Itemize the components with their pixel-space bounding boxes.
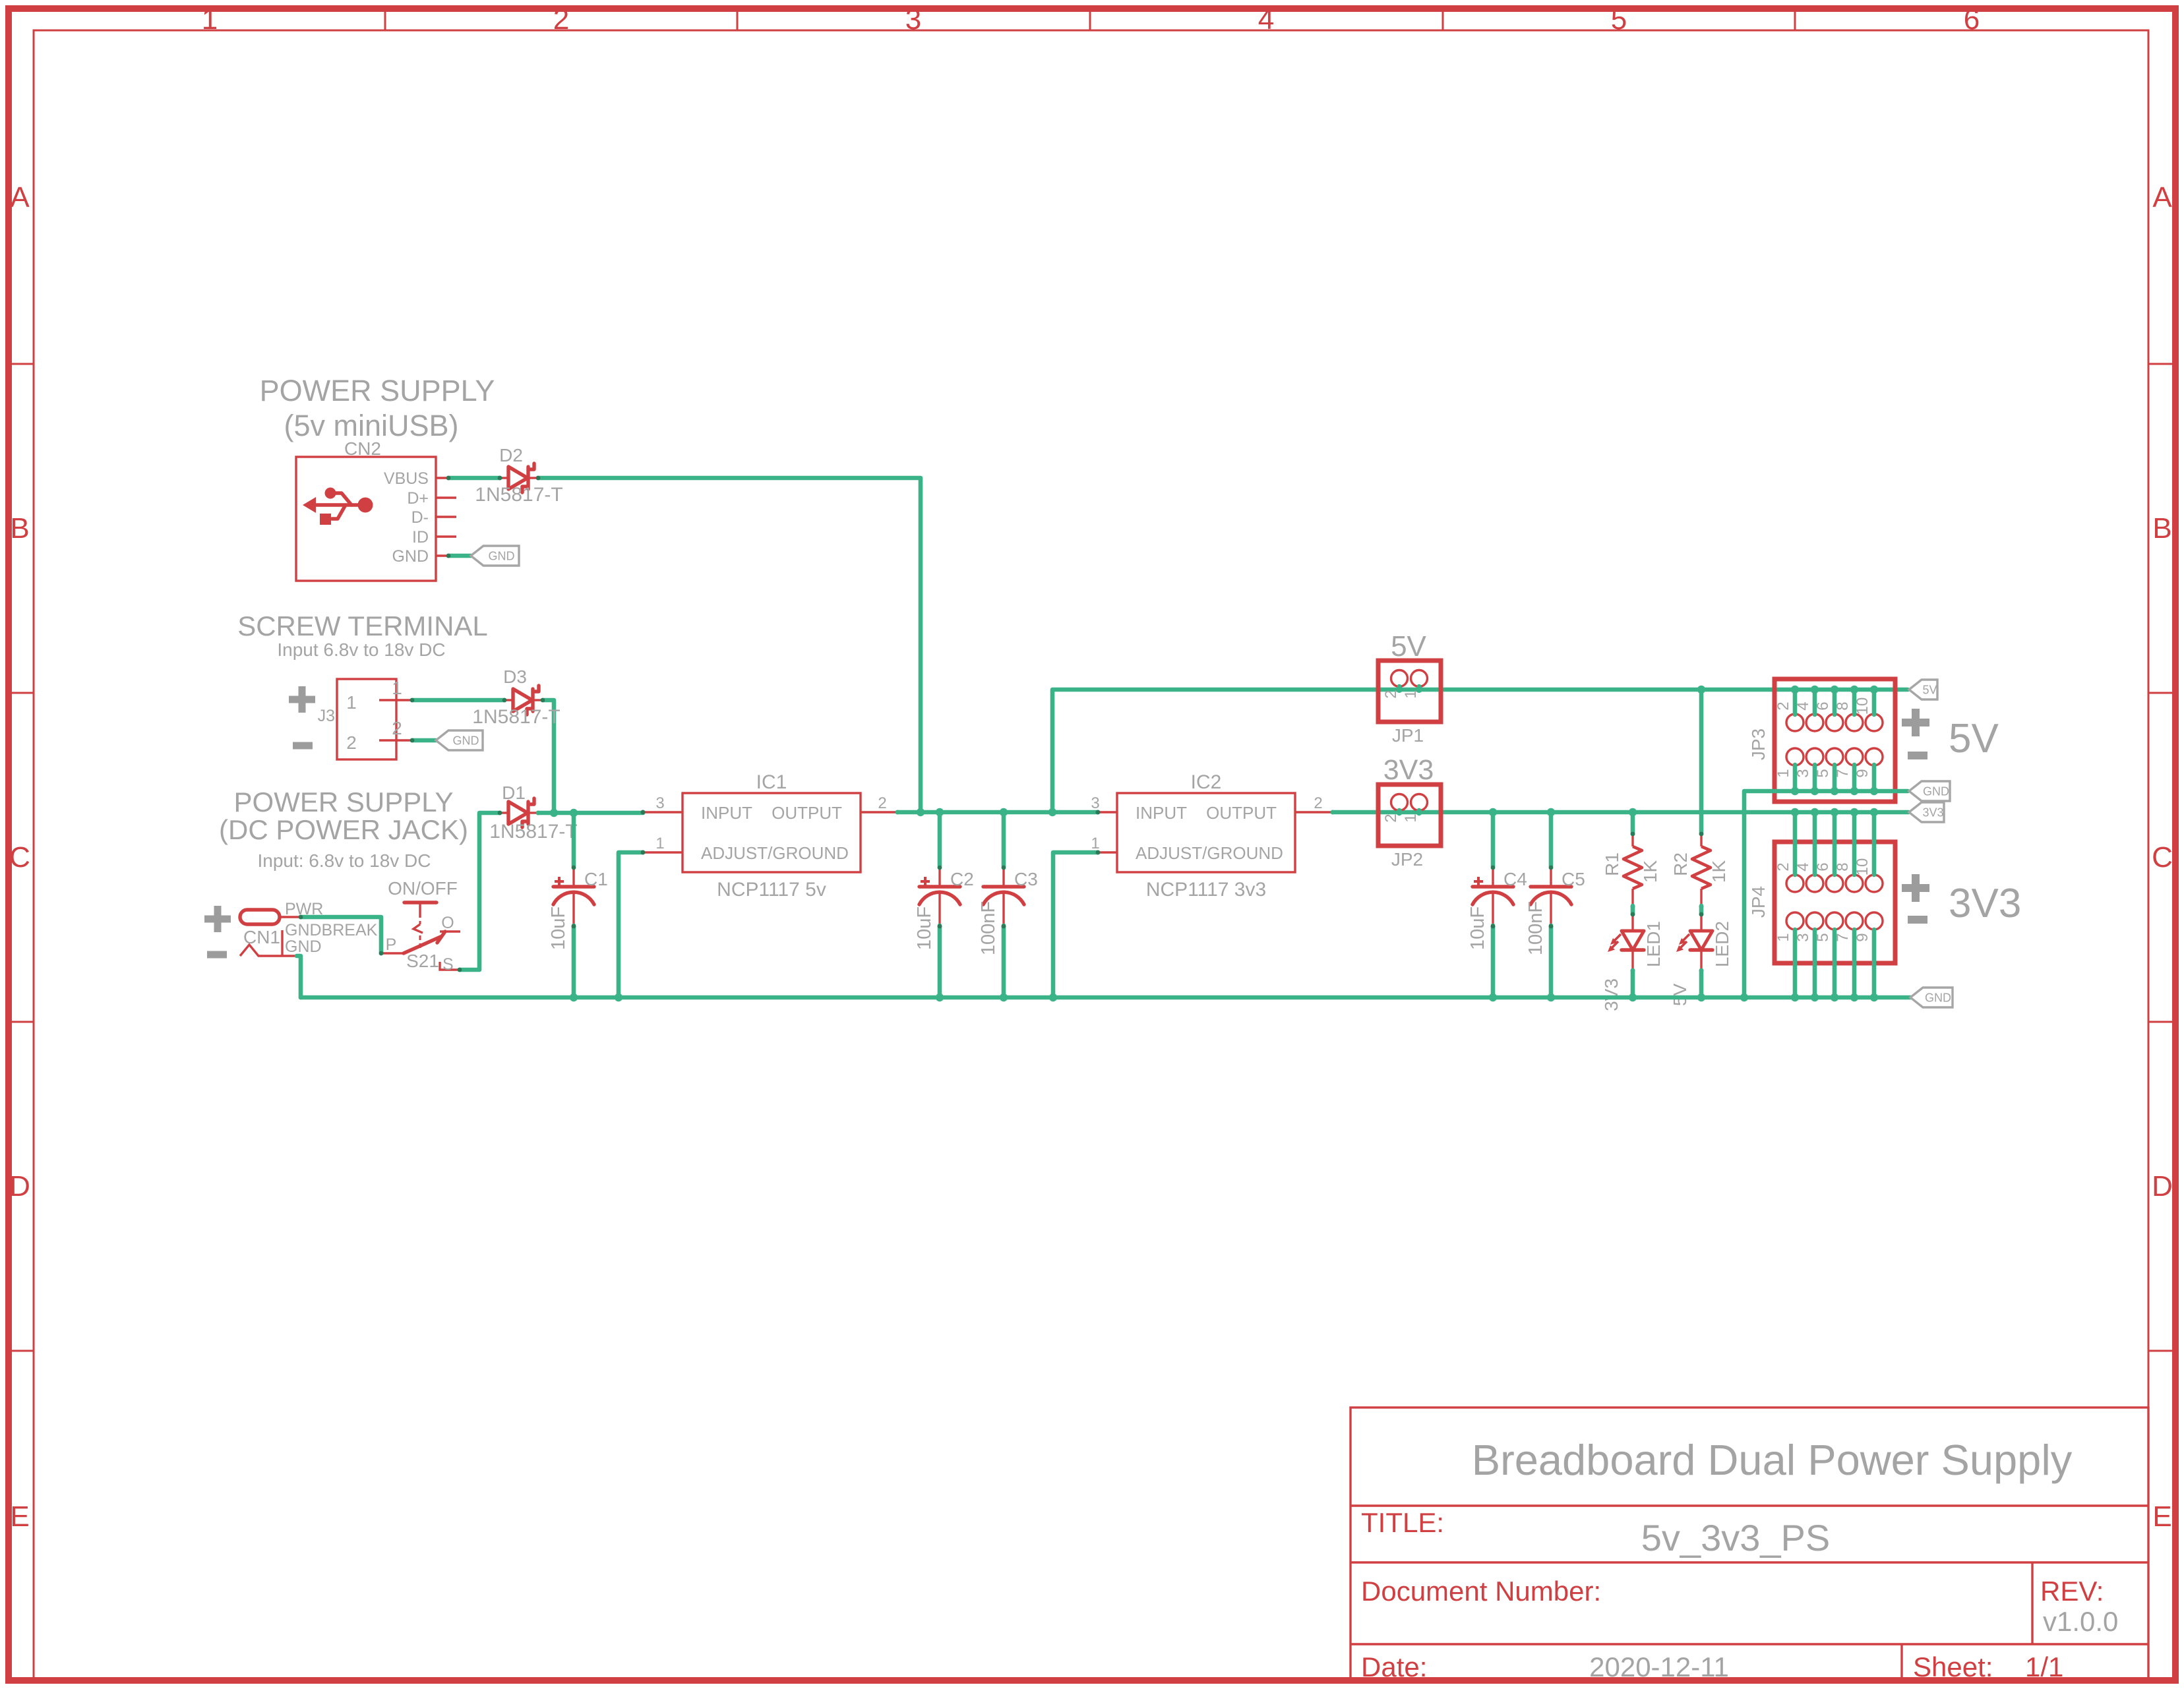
junction C1 tap (570, 809, 578, 817)
junctions JP1 pins on 5V rail (1396, 686, 1403, 693)
wire R1 riser (1631, 812, 1635, 834)
plus symbol 3V3 (1902, 874, 1929, 902)
junction IC1 adj at rail (615, 993, 622, 1001)
svg-text:NCP1117 3v3: NCP1117 3v3 (1146, 879, 1266, 901)
svg-text:POWER SUPPLY: POWER SUPPLY (234, 786, 454, 817)
TITLE row (1361, 1507, 1830, 1558)
junction C4 tap (1489, 808, 1497, 816)
svg-text:v1.0.0: v1.0.0 (2043, 1606, 2118, 1637)
svg-text:10uF: 10uF (1467, 906, 1488, 950)
wire R2 to LED2 (1699, 906, 1704, 914)
wire LED2 to ground rail (1699, 970, 1704, 997)
svg-text:1N5817-T: 1N5817-T (489, 821, 577, 843)
resistor R1 1K (1602, 832, 1660, 909)
svg-text:LED1: LED1 (1643, 921, 1664, 967)
svg-text:Date:: Date: (1361, 1651, 1427, 1682)
svg-text:IC1: IC1 (756, 771, 787, 793)
svg-text:SCREW TERMINAL: SCREW TERMINAL (237, 610, 488, 641)
svg-text:R1: R1 (1602, 852, 1622, 876)
USB icon (303, 488, 373, 525)
svg-text:NCP1117 5v: NCP1117 5v (717, 879, 826, 901)
GND flag (J3) (436, 730, 483, 750)
svg-text:LED2: LED2 (1712, 921, 1732, 967)
ground rail wire (301, 995, 1910, 1000)
svg-text:C: C (2152, 841, 2173, 874)
svg-text:1N5817-T: 1N5817-T (475, 484, 562, 506)
D1 labels (489, 783, 577, 843)
capacitor C5 (1525, 812, 1585, 997)
svg-text:P: P (386, 935, 397, 954)
svg-text:1: 1 (1774, 769, 1792, 777)
svg-text:D2: D2 (499, 445, 523, 465)
svg-text:Breadboard Dual Power Supply: Breadboard Dual Power Supply (1472, 1436, 2073, 1484)
svg-text:3V3: 3V3 (1922, 806, 1943, 819)
svg-text:O: O (441, 914, 454, 932)
svg-text:2: 2 (1382, 814, 1400, 822)
svg-text:100nF: 100nF (978, 901, 999, 955)
junction R2 riser (1697, 686, 1705, 694)
title block (1350, 1407, 2148, 1680)
wire J3 pin1 to D3 to D1 node (412, 700, 554, 813)
screw terminal J3 (318, 678, 412, 759)
svg-text:3: 3 (905, 3, 921, 36)
wire R2 riser (1699, 690, 1704, 834)
svg-text:1: 1 (392, 678, 402, 698)
section title SCREW TERMINAL (237, 610, 488, 660)
svg-text:D: D (2152, 1170, 2173, 1202)
svg-text:S: S (442, 955, 454, 974)
svg-text:2: 2 (346, 732, 357, 753)
svg-text:2: 2 (553, 3, 569, 36)
junction D3/D1 node (550, 809, 558, 817)
svg-text:GND: GND (1925, 992, 1951, 1005)
svg-text:GND: GND (285, 937, 322, 956)
svg-text:D: D (9, 1170, 30, 1202)
wire J3 pin2 stub (412, 738, 436, 743)
wire 3V3 net (1333, 810, 1908, 815)
junction C3 tap (1000, 808, 1008, 816)
power jack CN1 (240, 900, 378, 956)
svg-text:ID: ID (412, 528, 429, 547)
row labels A-E left (9, 181, 30, 1533)
svg-text:3: 3 (655, 794, 664, 812)
connector CN2 (296, 457, 456, 581)
svg-text:D3: D3 (503, 667, 527, 687)
svg-text:C3: C3 (1014, 869, 1038, 889)
svg-text:C2: C2 (950, 869, 974, 889)
junction D2 feed (917, 808, 925, 816)
svg-text:Input: 6.8v to 18v DC: Input: 6.8v to 18v DC (257, 850, 431, 871)
resistor R2 1K (1670, 832, 1729, 909)
plus symbol CN1 (204, 906, 231, 932)
svg-text:OUTPUT: OUTPUT (772, 803, 842, 823)
row labels A-E right (2152, 181, 2173, 1533)
svg-text:5V: 5V (1949, 716, 1999, 761)
svg-text:ON/OFF: ON/OFF (388, 878, 458, 899)
svg-text:C4: C4 (1503, 869, 1527, 889)
svg-text:B: B (10, 512, 29, 545)
wire JP3 GND bus (1744, 791, 1908, 997)
svg-text:JP3: JP3 (1748, 728, 1769, 760)
plus symbol J3 (289, 686, 315, 713)
pin connection tips (299, 476, 1101, 972)
diode D3 (502, 686, 545, 715)
svg-text:100nF: 100nF (1525, 901, 1546, 955)
wire R1 to LED1 (1631, 906, 1635, 914)
svg-text:1N5817-T: 1N5817-T (472, 706, 560, 728)
svg-text:(5v miniUSB): (5v miniUSB) (284, 409, 458, 442)
header JP3 (1774, 679, 1895, 802)
minus symbol J3 (293, 742, 313, 750)
wire IC1 adjust to ground rail (619, 852, 643, 997)
svg-text:10uF: 10uF (914, 906, 935, 950)
svg-text:5v_3v3_PS: 5v_3v3_PS (1641, 1517, 1830, 1558)
plus symbol 5V (1902, 709, 1929, 736)
wire CN2 GND stub (448, 554, 471, 558)
svg-text:GND: GND (1923, 785, 1949, 798)
svg-text:3V3: 3V3 (1949, 881, 2021, 926)
3V3 net flag (1909, 802, 1944, 822)
svg-text:S21: S21 (406, 951, 439, 971)
svg-text:Sheet:: Sheet: (1913, 1651, 1993, 1682)
svg-text:Document Number:: Document Number: (1361, 1576, 1601, 1607)
svg-text:INPUT: INPUT (701, 803, 752, 823)
svg-text:D+: D+ (407, 489, 429, 508)
junction C5 tap (1547, 808, 1555, 816)
wire CN1 GND down to ground rail (297, 956, 301, 997)
svg-text:A: A (2152, 181, 2172, 214)
svg-text:3V3: 3V3 (1383, 754, 1434, 786)
svg-text:3: 3 (1091, 794, 1099, 812)
svg-text:E: E (10, 1500, 29, 1533)
junction LED1 at rail (1629, 993, 1637, 1001)
jumper JP2 (1378, 785, 1441, 846)
svg-text:2: 2 (1774, 701, 1792, 710)
svg-text:5V: 5V (1391, 630, 1426, 663)
capacitor C2 (914, 812, 974, 997)
wire IC2 adjust to ground rail (1053, 852, 1098, 997)
junction LED2 at rail (1697, 993, 1705, 1001)
minus symbol 3V3 (1908, 916, 1927, 924)
svg-text:1/1: 1/1 (2025, 1651, 2063, 1682)
header JP4 (1774, 842, 1895, 963)
junction C4 at rail (1489, 993, 1497, 1001)
svg-text:GND: GND (392, 547, 429, 566)
junction R1 riser (1629, 808, 1637, 816)
wire switch S to D1 anode (460, 813, 500, 970)
diode D1 (498, 798, 541, 827)
svg-text:VBUS: VBUS (384, 469, 429, 488)
svg-text:1: 1 (1402, 814, 1420, 822)
jumper JP1 (1378, 661, 1441, 722)
minus symbol CN1 (207, 951, 227, 959)
wire IC1 output net to IC2 input (897, 810, 1098, 815)
GND net flag (rail) (1910, 988, 1953, 1007)
switch S21 ON/OFF (382, 878, 460, 974)
svg-text:JP4: JP4 (1748, 886, 1769, 918)
junction C2 at rail (936, 993, 944, 1001)
regulator IC2 (1091, 771, 1335, 901)
column labels 1-6 (202, 3, 1980, 36)
junction 5V riser (1048, 808, 1056, 816)
svg-text:2020-12-11: 2020-12-11 (1589, 1651, 1729, 1682)
LED LED1 (1608, 912, 1664, 973)
GND net flag (JP3) (1909, 781, 1950, 801)
svg-text:E: E (2152, 1500, 2171, 1533)
regulator IC1 (641, 771, 900, 901)
svg-text:CN1: CN1 (243, 927, 280, 947)
svg-text:TITLE:: TITLE: (1361, 1507, 1444, 1538)
svg-text:Input 6.8v to 18v DC: Input 6.8v to 18v DC (277, 639, 445, 660)
GND flag (CN2) (471, 546, 519, 566)
wire LED1 to ground rail (1631, 970, 1635, 997)
JP3 bottom stubs to GND bus (1791, 765, 1878, 795)
svg-text:JP2: JP2 (1391, 849, 1423, 870)
svg-text:GNDBREAK: GNDBREAK (285, 921, 378, 939)
junction C3 at rail (1000, 993, 1008, 1001)
date row (1361, 1651, 2063, 1682)
section title POWER SUPPLY (DC POWER JACK) (219, 786, 468, 871)
svg-text:1: 1 (346, 692, 357, 713)
svg-text:1: 1 (655, 835, 664, 852)
svg-text:B: B (2152, 512, 2171, 545)
svg-text:R2: R2 (1670, 852, 1691, 876)
section title POWER SUPPLY (5v miniUSB) (260, 374, 495, 442)
capacitor C4 (1467, 812, 1527, 997)
svg-text:C1: C1 (584, 869, 608, 889)
svg-text:J3: J3 (318, 707, 335, 725)
svg-text:1K: 1K (1709, 860, 1729, 883)
LED LED2 (1676, 912, 1732, 973)
JP4 bottom stubs to ground rail (1791, 930, 1878, 1001)
svg-text:1: 1 (202, 3, 218, 36)
svg-text:2: 2 (1774, 862, 1792, 871)
svg-text:D-: D- (411, 508, 429, 527)
diode D2 (498, 463, 541, 492)
svg-text:INPUT: INPUT (1136, 803, 1187, 823)
svg-text:IC2: IC2 (1191, 771, 1222, 793)
svg-text:JP1: JP1 (1392, 725, 1424, 746)
wire CN1 PWR to switch P (301, 917, 381, 953)
document number row (1361, 1576, 2118, 1637)
svg-text:5: 5 (1611, 3, 1627, 36)
capacitor C3 (978, 812, 1038, 997)
svg-text:1: 1 (1774, 933, 1792, 941)
svg-text:ADJUST/GROUND: ADJUST/GROUND (701, 843, 849, 863)
5V net flag (1909, 680, 1937, 699)
svg-text:C: C (9, 841, 30, 874)
D2 labels (475, 445, 562, 506)
junction JP3 GND at rail (1740, 993, 1748, 1001)
svg-text:OUTPUT: OUTPUT (1206, 803, 1277, 823)
svg-text:ADJUST/GROUND: ADJUST/GROUND (1136, 843, 1283, 863)
junction C2 tap (936, 808, 944, 816)
svg-text:1: 1 (1091, 835, 1099, 852)
junction IC2 adj at rail (1049, 993, 1057, 1001)
svg-text:3V3: 3V3 (1601, 978, 1622, 1011)
D3 labels (472, 667, 560, 728)
junction C5 at rail (1547, 993, 1555, 1001)
svg-text:D1: D1 (502, 783, 526, 803)
svg-text:5V: 5V (1670, 984, 1690, 1007)
svg-text:4: 4 (1258, 3, 1274, 36)
svg-text:2: 2 (878, 794, 886, 812)
svg-text:A: A (10, 181, 30, 214)
junctions JP2 pins on 3V3 net (1396, 809, 1403, 815)
capacitor C1 (548, 813, 608, 997)
svg-text:(DC POWER JACK): (DC POWER JACK) (219, 814, 468, 845)
svg-text:10uF: 10uF (548, 906, 569, 950)
svg-text:POWER SUPPLY: POWER SUPPLY (260, 374, 495, 407)
svg-text:C5: C5 (1562, 869, 1585, 889)
svg-text:2: 2 (392, 718, 402, 738)
svg-text:GND: GND (453, 734, 479, 748)
wire 5V riser and 5V rail (1052, 690, 1908, 812)
junction C1 at ground rail (570, 993, 578, 1001)
JP4 top stubs to 3V3 net (1791, 808, 1878, 875)
wire VBUS to D2 to 5V node (448, 478, 921, 812)
svg-text:6: 6 (1964, 3, 1980, 36)
svg-text:2: 2 (1314, 794, 1322, 812)
svg-text:GND: GND (489, 550, 515, 563)
svg-text:REV:: REV: (2040, 1576, 2104, 1607)
svg-text:5V: 5V (1922, 684, 1937, 697)
svg-text:1K: 1K (1640, 860, 1660, 883)
JP3 top stubs to 5V rail (1791, 686, 1878, 715)
wire D1 to IC1 input (538, 811, 643, 815)
minus symbol 5V (1908, 752, 1927, 759)
